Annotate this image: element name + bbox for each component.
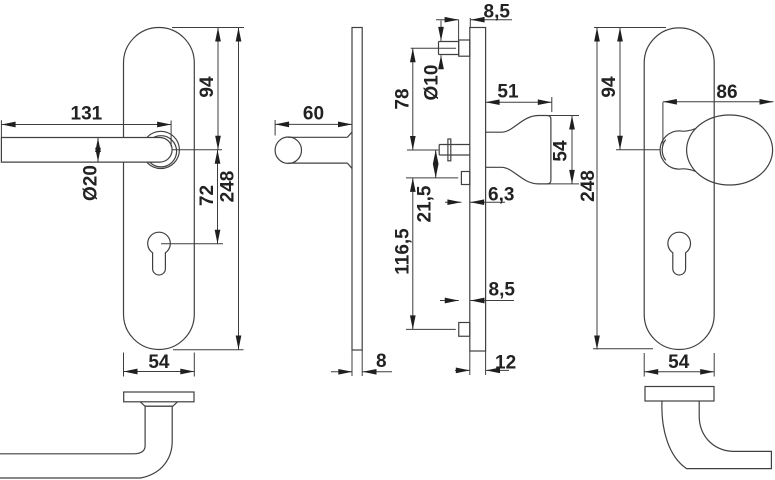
svg-text:131: 131	[71, 104, 103, 125]
svg-text:6,3: 6,3	[488, 184, 514, 205]
svg-text:248: 248	[218, 171, 239, 203]
svg-text:78: 78	[393, 88, 414, 109]
svg-text:54: 54	[551, 140, 572, 162]
svg-text:54: 54	[668, 352, 690, 373]
svg-text:8,5: 8,5	[484, 2, 511, 23]
svg-text:72: 72	[197, 185, 218, 206]
svg-text:8,5: 8,5	[489, 280, 516, 301]
svg-text:54: 54	[148, 352, 170, 373]
svg-text:51: 51	[497, 82, 519, 103]
svg-text:Ø10: Ø10	[421, 65, 442, 101]
svg-text:8: 8	[376, 351, 387, 372]
svg-text:86: 86	[716, 82, 737, 103]
svg-text:21,5: 21,5	[415, 185, 436, 222]
svg-text:94: 94	[197, 76, 218, 98]
svg-text:12: 12	[495, 353, 516, 374]
svg-text:116,5: 116,5	[393, 228, 414, 275]
svg-text:Ø20: Ø20	[81, 165, 102, 201]
svg-text:248: 248	[578, 170, 599, 202]
svg-text:60: 60	[303, 103, 324, 124]
svg-text:94: 94	[599, 76, 620, 98]
